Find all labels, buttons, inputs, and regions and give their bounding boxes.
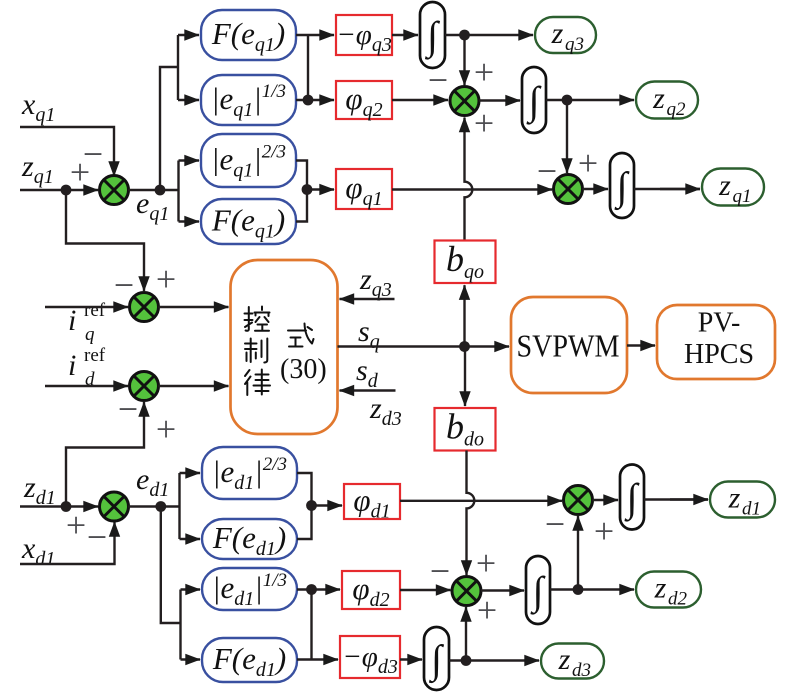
wire integrator 5 output	[550, 588, 578, 590]
wire z_d1 into summer Sd1L	[20, 505, 98, 507]
svg-text:−: −	[87, 517, 107, 557]
wire integrator 3 output	[634, 188, 700, 190]
wire Sd1R output to integrator 4	[592, 499, 618, 501]
node joining 2/3 and F outputs	[302, 184, 313, 195]
output z_d2	[636, 572, 701, 610]
wire branch to 2/3 and F boxes (d)	[161, 473, 180, 539]
node branch to -phi_d3 line	[306, 584, 317, 595]
svg-text:F(ed1): F(ed1)	[212, 641, 286, 681]
CJK char shi (equation)	[288, 324, 314, 347]
arrow into box |e_q1|^1/3	[178, 99, 199, 101]
wire branch down to phi_q2 node	[307, 35, 309, 100]
wire branch to 2/3 and F boxes	[160, 161, 179, 222]
arrow into z_d3 output	[466, 659, 539, 661]
gain box -phi_d3	[340, 636, 400, 678]
node z_q2 branch	[562, 95, 573, 106]
svg-text:+: +	[477, 590, 497, 630]
function box F(e_q1) top	[201, 10, 296, 60]
svg-text:HPCS: HPCS	[684, 339, 754, 370]
wire 2/3 and F outputs joining	[296, 161, 307, 222]
integrator 5 (d2)	[526, 556, 550, 624]
function box F(e_q1) lower	[201, 199, 296, 244]
wire Sq1L output to node e_q1	[128, 189, 160, 191]
wire s_q node down into b_do	[464, 347, 466, 407]
arrow into box F(e_q1) lower	[179, 220, 200, 222]
wire s_q node up into b_qo	[463, 285, 465, 346]
summer Sid	[130, 372, 159, 401]
svg-text:F(eq1): F(eq1)	[211, 203, 285, 243]
gain box b_qo	[435, 239, 496, 283]
node junction z_q1 feedback	[61, 185, 72, 196]
wire SVPWM to PV-HPCS	[627, 344, 655, 346]
svg-text:−: −	[118, 389, 138, 429]
node junction z_d1 feedback	[61, 501, 72, 512]
svg-text:+: +	[476, 543, 496, 583]
function box |e_q1|^2/3	[201, 134, 296, 187]
svg-text:i: i	[68, 349, 76, 382]
SVPWM block	[511, 297, 627, 393]
wire phi_q2 into summer Sq2	[392, 99, 448, 101]
wire branch down to 1/3 and F boxes (d)	[161, 507, 181, 660]
node z_d2 branch	[573, 584, 584, 595]
CJK char kong (control)	[245, 307, 270, 331]
wire z_q3 into control-law box	[340, 298, 395, 300]
svg-text:SVPWM: SVPWM	[517, 328, 620, 364]
function box F(e_d1) lower	[202, 638, 297, 682]
gain box -phi_q3	[336, 15, 392, 56]
node z_d3 branch	[461, 655, 472, 666]
svg-text:d3: d3	[572, 660, 591, 681]
summer Siq	[130, 293, 159, 322]
gain box b_do	[435, 406, 496, 450]
svg-text:PV-: PV-	[698, 308, 741, 339]
wire s_q from control-law box to SVPWM	[338, 345, 510, 347]
node s_q branch	[459, 341, 470, 352]
gain box phi_q2	[336, 81, 392, 121]
wire branch down joining F output (d)	[310, 590, 312, 660]
arrow into phi_d1 box	[312, 504, 343, 506]
arrow into z_d2 output	[578, 588, 634, 590]
wire Siq output into control-law box	[158, 306, 228, 308]
wire phi_d1 output to summer Sd1R	[400, 500, 562, 502]
integrator 6 (d3)	[424, 627, 449, 690]
wire 2/3 and F outputs joining (d)	[297, 473, 312, 539]
summer Sd1R	[564, 486, 593, 515]
wire z_d3 node up into Sd2	[465, 607, 467, 661]
wire i_d^ref into summer Sid	[45, 385, 128, 387]
wire x_q1 into summer Sq1L (down arrow)	[20, 127, 114, 176]
gain box phi_d1	[344, 483, 400, 523]
svg-text:−: −	[545, 504, 565, 544]
svg-text:+: +	[156, 409, 176, 449]
svg-text:z: z	[718, 169, 731, 202]
wire b_do down into Sd2 (hop over phi_d1 wire)	[467, 451, 475, 576]
CJK char lv (law)	[245, 370, 270, 396]
PV-HPCS block	[657, 305, 775, 379]
svg-text:q3: q3	[565, 34, 584, 55]
node joining d upper outputs	[306, 500, 317, 511]
svg-text:q2: q2	[667, 99, 687, 120]
function box F(e_d1) upper	[202, 519, 297, 560]
arrow into box F(e_d1) lower	[181, 658, 201, 660]
arrow into box F(e_d1) upper	[180, 538, 201, 540]
node e_d1	[155, 501, 166, 512]
svg-text:+: +	[594, 511, 614, 551]
arrow into box |e_q1|^2/3	[179, 159, 200, 161]
svg-text:d1: d1	[742, 499, 761, 520]
svg-text:q1: q1	[733, 186, 752, 207]
wire integrator 2 output	[546, 99, 567, 101]
svg-text:+: +	[156, 259, 176, 299]
wire i_q^ref into summer Siq	[45, 306, 128, 308]
svg-text:+: +	[474, 103, 494, 143]
wire phi_d2 into summer Sd2	[400, 589, 451, 591]
svg-text:+: +	[70, 152, 90, 192]
control-law box (kong-zhi-lv eq.30)	[231, 260, 338, 434]
summer Sq1R	[554, 175, 583, 204]
wire z_q1 feedback into summer Siq	[66, 190, 144, 291]
wire z_d1 feedback up into summer Sid	[66, 402, 144, 507]
svg-text:z: z	[558, 643, 571, 676]
wire Sq2 output to integrator 2	[479, 99, 520, 101]
svg-text:(30): (30)	[280, 354, 327, 385]
output z_d3	[541, 643, 604, 681]
svg-text:−: −	[430, 551, 450, 591]
integrator 1 (q3)	[420, 2, 445, 68]
gain box phi_d2	[342, 571, 400, 611]
svg-text:z: z	[652, 82, 665, 115]
arrow into box |e_d1|^2/3	[180, 472, 201, 474]
wire x_d1 up into summer Sd1L	[20, 522, 115, 564]
arrow into box |e_d1|^1/3	[181, 588, 201, 590]
summer Sd1L (z_d1 - x_d1)	[100, 492, 129, 521]
arrow into z_d1 output	[670, 498, 708, 500]
wire F(e_d1) output to -phi_d3 box	[297, 658, 338, 660]
function box |e_d1|^1/3	[202, 568, 297, 610]
summer Sq1L (z_q1 - x_q1)	[100, 176, 129, 205]
svg-text:q: q	[85, 324, 95, 345]
svg-text:F(ed1): F(ed1)	[212, 520, 286, 560]
svg-text:+: +	[66, 505, 86, 545]
wire phi_q1 output to summer Sq1R	[392, 188, 552, 190]
gain box phi_q1	[336, 169, 392, 210]
function box |e_q1|^1/3	[201, 75, 296, 125]
integrator 2 (q2)	[522, 67, 546, 133]
output z_q1	[702, 169, 764, 208]
integrator 4 (d1)	[620, 465, 644, 530]
svg-text:ref: ref	[84, 300, 106, 321]
output z_d1	[710, 482, 775, 520]
wire b_qo up into Sq2 (hop over phi_q1 wire)	[465, 118, 473, 241]
wire -phi_d3 to integrator 6	[400, 658, 422, 660]
wire Sd2 output to integrator 5	[481, 589, 524, 591]
wire |e_q1|^1/3 output to phi_q2 box	[296, 99, 334, 101]
node z_q3 branch	[459, 30, 470, 41]
arrow into z_q1 output	[660, 188, 700, 190]
svg-text:+: +	[474, 52, 494, 92]
wire z_d2 node up into Sd1R	[577, 516, 579, 590]
svg-text:+: +	[578, 143, 598, 183]
wire |e_d1|^1/3 output to phi_d2 box	[297, 588, 340, 590]
svg-text:−: −	[428, 60, 448, 100]
integrator 3 (q1)	[610, 153, 634, 218]
CJK char zhi (system)	[245, 339, 267, 363]
wire integrator 1 output	[445, 34, 465, 36]
svg-text:d2: d2	[668, 589, 688, 610]
arrow into z_q2 output	[567, 99, 634, 101]
svg-text:F(eq1): F(eq1)	[211, 16, 285, 56]
summer Sq2	[450, 87, 479, 116]
function box |e_d1|^2/3	[202, 447, 297, 499]
svg-text:z: z	[728, 482, 741, 515]
wire branch up to F and 1/3 boxes	[160, 35, 178, 190]
wire z_q1 into summer Sq1L	[20, 189, 98, 191]
wire integrator 4 output	[644, 498, 708, 500]
wire F(e_q1) output to -phi_q3 box	[296, 34, 334, 36]
arrow into box F(e_q1) top	[178, 34, 199, 36]
wire Sid output into control-law box	[158, 385, 228, 387]
node e_q1	[155, 185, 166, 196]
output z_q2	[636, 82, 698, 121]
wire integrator 6 output	[449, 659, 466, 661]
svg-text:z: z	[654, 572, 667, 605]
wire Sd1L output to node e_d1	[128, 505, 161, 507]
wire z_d3 into control-law box	[340, 389, 396, 391]
arrow into z_q3 output	[465, 34, 534, 36]
svg-text:ref: ref	[84, 345, 106, 366]
wire z_q2 node down into Sq1R	[566, 100, 568, 173]
arrow into phi_q1 box	[307, 188, 334, 190]
wire Sq1R output to integrator 3	[582, 188, 608, 190]
output z_q3	[535, 17, 596, 55]
svg-text:z: z	[551, 17, 564, 50]
wire down from z_q3 node into summer Sq2	[463, 35, 465, 85]
wire -phi_q3 to integrator 1	[392, 34, 418, 36]
node joining F and 1/3 outputs	[303, 95, 314, 106]
summer Sd2	[452, 577, 481, 606]
svg-text:i: i	[68, 304, 76, 337]
